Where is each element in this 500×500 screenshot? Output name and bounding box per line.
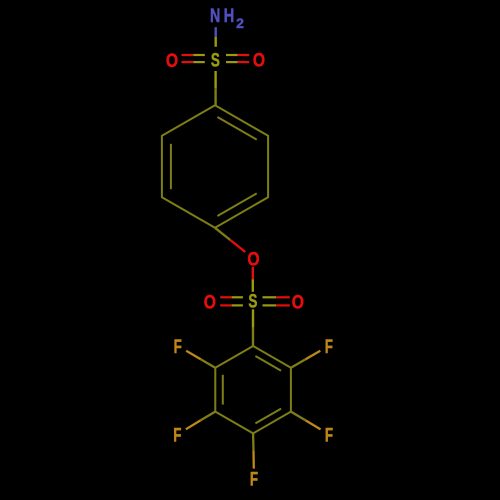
double bond S2=O5 xyxy=(263,296,277,298)
aromatic inner line ring upper edge 4-5 xyxy=(170,144,172,189)
svg-text:S: S xyxy=(211,49,220,71)
aromatic inner line ring upper edge 0-1 xyxy=(217,117,256,140)
aromatic inner line ring upper edge 2-3 xyxy=(217,193,256,216)
bond C-F bottom xyxy=(252,433,255,451)
svg-text:F: F xyxy=(173,424,181,446)
benzene ring upper xyxy=(162,105,268,228)
double bond S1=O2 xyxy=(226,54,238,56)
svg-text:F: F xyxy=(325,336,333,358)
svg-text:F: F xyxy=(174,336,182,358)
bond S1-C1 (to upper ring) xyxy=(214,71,216,88)
aromatic inner line ring lower edge 2-3 xyxy=(255,409,281,424)
svg-text:O: O xyxy=(253,50,265,72)
svg-text:F: F xyxy=(250,468,258,490)
svg-text:F: F xyxy=(325,424,333,446)
bond O3-S2 xyxy=(252,267,254,280)
aromatic inner line ring lower edge 4-5 xyxy=(222,375,224,405)
double bond S1=O1 xyxy=(193,54,205,56)
svg-text:N: N xyxy=(210,5,220,27)
svg-text:2: 2 xyxy=(236,15,244,31)
bond C-F top-right xyxy=(291,359,306,368)
bond S2-C1' (to lower ring) xyxy=(252,309,254,327)
svg-text:O: O xyxy=(292,292,304,314)
bond N-S1 xyxy=(214,27,216,37)
svg-text:O: O xyxy=(166,50,178,72)
bond C-F mid-left xyxy=(201,412,216,421)
bond C4-O3 (ester O) xyxy=(215,228,230,240)
double bond S2=O4 xyxy=(232,296,243,298)
svg-text:O: O xyxy=(204,291,216,313)
aromatic inner line ring lower edge 0-1 xyxy=(255,356,281,371)
bond C-F mid-right xyxy=(291,412,306,421)
bond C-F top-left xyxy=(201,359,216,368)
benzene ring lower xyxy=(215,346,291,433)
svg-text:H: H xyxy=(224,5,235,27)
